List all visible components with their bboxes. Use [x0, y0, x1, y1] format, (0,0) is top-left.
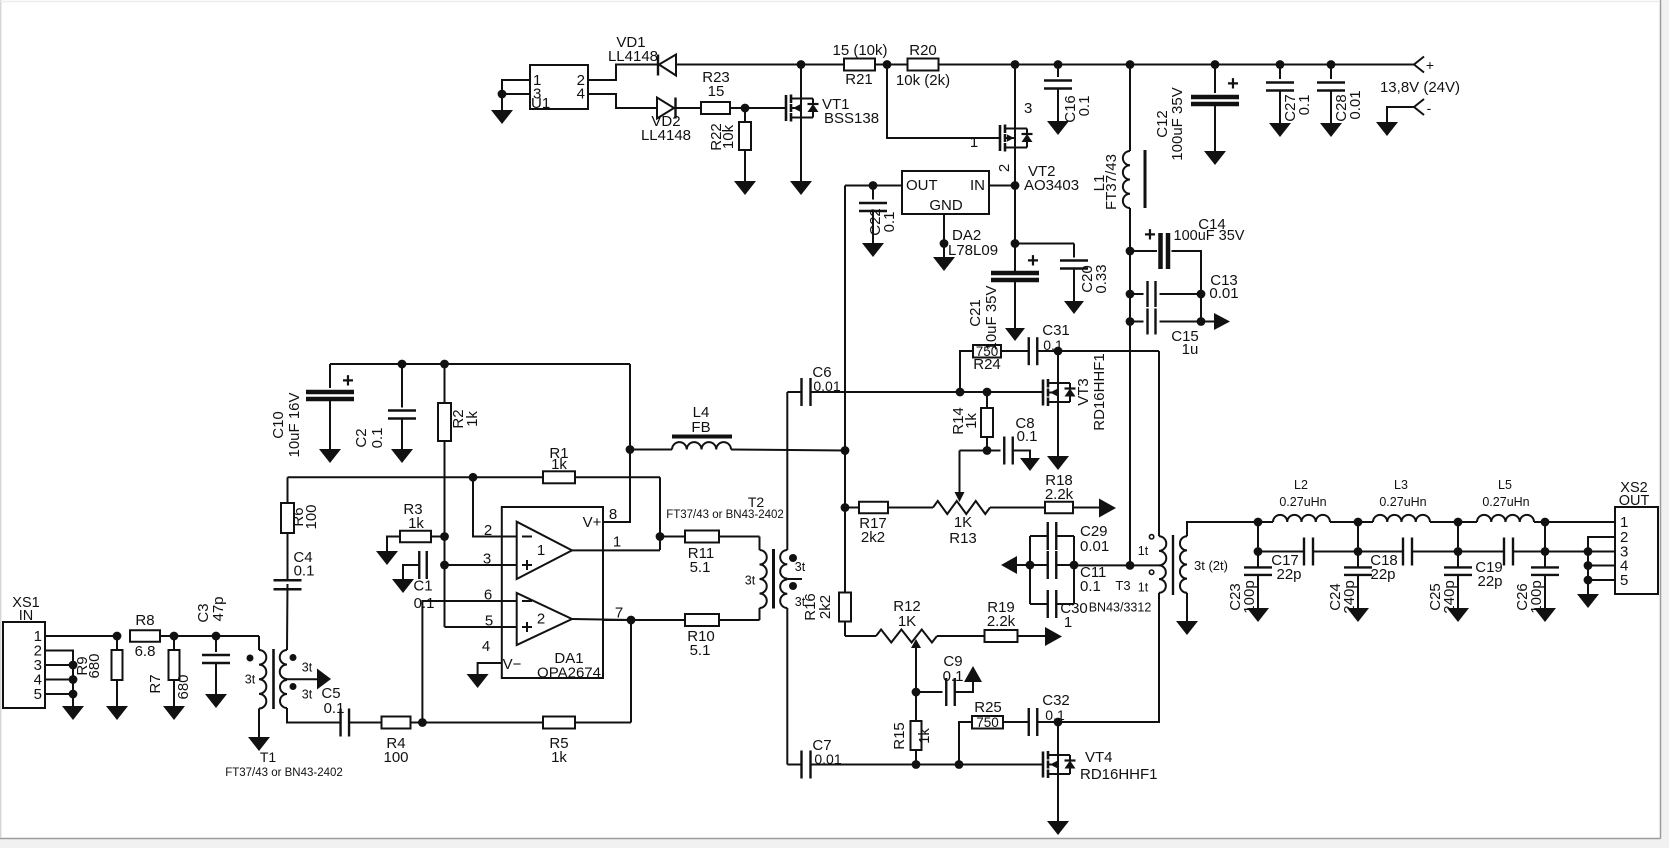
svg-text:0.1: 0.1 [1043, 337, 1063, 353]
svg-text:22p: 22p [1370, 566, 1395, 583]
svg-text:C2: C2 [353, 428, 370, 447]
svg-text:22p: 22p [1276, 566, 1301, 583]
svg-text:0.33: 0.33 [1093, 264, 1110, 293]
svg-text:15 (10k): 15 (10k) [832, 42, 887, 59]
svg-text:100uF 35V: 100uF 35V [1169, 87, 1186, 160]
svg-text:VT4: VT4 [1085, 749, 1113, 766]
svg-text:3t: 3t [795, 595, 806, 609]
svg-text:0.01: 0.01 [813, 378, 840, 394]
svg-text:5: 5 [34, 686, 42, 703]
svg-text:0.1: 0.1 [294, 563, 315, 580]
svg-text:FT37/43 or BN43-2402: FT37/43 or BN43-2402 [666, 509, 784, 521]
svg-text:750: 750 [976, 715, 999, 730]
svg-text:OUT: OUT [906, 177, 938, 194]
svg-text:FT37/43 or BN43-2402: FT37/43 or BN43-2402 [225, 767, 343, 779]
svg-text:T3: T3 [1115, 578, 1130, 593]
svg-text:8: 8 [609, 506, 617, 523]
svg-text:C10: C10 [270, 411, 287, 439]
svg-text:+: + [1227, 73, 1239, 95]
svg-text:4: 4 [577, 86, 585, 103]
svg-text:+: + [342, 370, 354, 392]
svg-text:C21: C21 [967, 299, 984, 327]
svg-text:10uF 35V: 10uF 35V [983, 285, 1000, 350]
svg-text:L5: L5 [1498, 478, 1512, 492]
svg-text:GND: GND [929, 197, 963, 214]
svg-text:1u: 1u [1182, 341, 1199, 358]
svg-text:680: 680 [86, 653, 103, 678]
svg-text:V−: V− [503, 656, 522, 673]
svg-text:15: 15 [708, 83, 725, 100]
svg-text:5: 5 [1620, 572, 1628, 589]
svg-text:3t: 3t [245, 673, 256, 687]
svg-text:L2: L2 [1294, 478, 1308, 492]
svg-text:OUT: OUT [1619, 493, 1650, 509]
svg-text:100: 100 [383, 749, 408, 766]
svg-text:3t: 3t [302, 688, 313, 702]
svg-text:1t: 1t [1138, 544, 1149, 558]
svg-text:RD16HHF1: RD16HHF1 [1080, 766, 1158, 783]
svg-text:R15: R15 [891, 722, 908, 750]
svg-text:680: 680 [175, 674, 192, 699]
svg-text:1K: 1K [898, 613, 916, 630]
svg-text:0.1: 0.1 [414, 595, 435, 612]
svg-text:V+: V+ [583, 514, 602, 531]
svg-text:+: + [1027, 250, 1039, 272]
svg-text:0.01: 0.01 [1209, 285, 1238, 302]
svg-text:0.27uHn: 0.27uHn [1379, 495, 1426, 509]
svg-text:0.01: 0.01 [814, 751, 841, 767]
svg-text:240p: 240p [1341, 580, 1358, 613]
svg-text:10k: 10k [720, 124, 737, 149]
svg-text:R24: R24 [973, 356, 1001, 373]
svg-text:3t: 3t [302, 661, 313, 675]
svg-text:2.2k: 2.2k [1045, 486, 1074, 503]
svg-text:3t (2t): 3t (2t) [1194, 558, 1228, 573]
svg-text:1k: 1k [551, 456, 567, 473]
svg-text:1k: 1k [551, 749, 567, 766]
svg-text:C1: C1 [413, 578, 432, 595]
svg-text:4: 4 [482, 638, 490, 655]
svg-text:1: 1 [537, 542, 545, 559]
svg-text:5.1: 5.1 [690, 559, 711, 576]
svg-text:IN: IN [19, 608, 34, 624]
svg-text:OPA2674: OPA2674 [537, 665, 601, 682]
svg-text:1k: 1k [963, 413, 980, 429]
svg-text:1k: 1k [408, 515, 424, 532]
svg-text:+: + [1144, 224, 1156, 246]
svg-text:100p: 100p [1528, 580, 1545, 613]
svg-text:100p: 100p [1241, 580, 1258, 613]
svg-text:FT37/43: FT37/43 [1103, 154, 1120, 210]
svg-text:100: 100 [303, 504, 320, 529]
svg-text:AO3403: AO3403 [1024, 177, 1079, 194]
svg-text:R8: R8 [135, 612, 154, 629]
svg-text:240p: 240p [1441, 580, 1458, 613]
svg-text:0.1: 0.1 [943, 668, 964, 685]
svg-text:BSS138: BSS138 [824, 110, 879, 127]
svg-text:13,8V (24V): 13,8V (24V) [1380, 79, 1460, 96]
svg-text:R25: R25 [974, 699, 1002, 716]
svg-text:0.01: 0.01 [1347, 90, 1364, 119]
svg-text:1t: 1t [1138, 581, 1149, 595]
svg-text:1: 1 [1064, 614, 1072, 631]
svg-text:R7: R7 [147, 674, 164, 693]
svg-text:RD16HHF1: RD16HHF1 [1091, 353, 1108, 431]
svg-text:L3: L3 [1394, 478, 1408, 492]
svg-text:BN43/3312: BN43/3312 [1089, 601, 1152, 615]
svg-text:0.1: 0.1 [1080, 578, 1101, 595]
svg-text:FB: FB [691, 419, 710, 436]
svg-text:0.27uHn: 0.27uHn [1279, 495, 1326, 509]
svg-text:R20: R20 [909, 42, 937, 59]
svg-text:0.1: 0.1 [881, 212, 898, 233]
svg-text:1: 1 [970, 134, 978, 151]
svg-text:-: - [1427, 100, 1432, 116]
svg-text:1K: 1K [954, 514, 972, 531]
svg-text:10k (2k): 10k (2k) [896, 72, 950, 89]
svg-text:100uF 35V: 100uF 35V [1174, 228, 1245, 244]
svg-text:R21: R21 [845, 71, 873, 88]
svg-text:3t: 3t [745, 574, 756, 588]
svg-text:2: 2 [996, 164, 1013, 172]
svg-text:LL4148: LL4148 [641, 127, 691, 144]
svg-text:10uF 16V: 10uF 16V [286, 392, 303, 457]
svg-text:0.1: 0.1 [324, 700, 345, 717]
svg-text:2.2k: 2.2k [987, 613, 1016, 630]
svg-text:47p: 47p [210, 596, 227, 621]
svg-text:0.1: 0.1 [369, 428, 386, 449]
svg-text:1: 1 [613, 534, 621, 551]
svg-text:L78L09: L78L09 [948, 242, 998, 259]
svg-text:3: 3 [1024, 100, 1032, 117]
svg-text:LL4148: LL4148 [608, 48, 658, 65]
svg-text:IN: IN [970, 177, 985, 194]
svg-text:T1: T1 [260, 749, 277, 765]
svg-text:VT3: VT3 [1075, 378, 1092, 406]
svg-text:2k2: 2k2 [817, 595, 834, 619]
svg-text:U1: U1 [531, 95, 550, 112]
svg-text:2k2: 2k2 [861, 529, 885, 546]
svg-text:2: 2 [537, 611, 545, 628]
svg-text:2: 2 [484, 522, 492, 539]
svg-text:0.01: 0.01 [1080, 538, 1109, 555]
svg-text:0.27uHn: 0.27uHn [1482, 495, 1529, 509]
svg-text:0.1: 0.1 [1296, 95, 1313, 116]
svg-text:0.1: 0.1 [1045, 707, 1065, 723]
svg-text:6.8: 6.8 [135, 643, 156, 660]
svg-text:22p: 22p [1477, 573, 1502, 590]
svg-text:5.1: 5.1 [690, 642, 711, 659]
svg-text:T2: T2 [748, 494, 765, 510]
svg-text:0.1: 0.1 [1076, 96, 1093, 117]
svg-text:R13: R13 [949, 530, 977, 547]
svg-text:1k: 1k [464, 411, 481, 427]
svg-text:1k: 1k [916, 728, 933, 744]
svg-text:+: + [1426, 57, 1434, 73]
svg-text:0.1: 0.1 [1017, 428, 1038, 445]
svg-text:3t: 3t [795, 560, 806, 574]
